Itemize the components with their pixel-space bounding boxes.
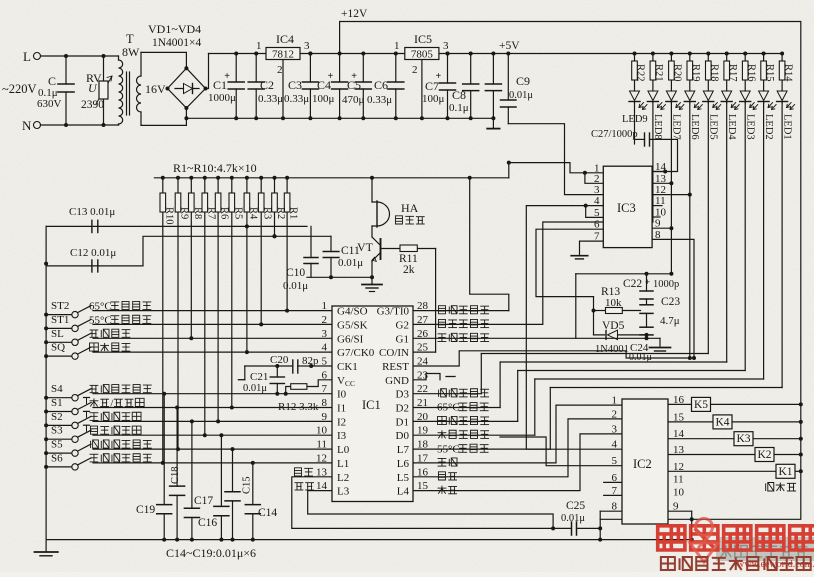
svg-text:3: 3: [304, 40, 310, 52]
svg-text:CO/IN: CO/IN: [379, 347, 409, 359]
svg-text:7805: 7805: [411, 49, 434, 61]
svg-text:4: 4: [594, 195, 600, 207]
svg-text:S4: S4: [51, 383, 63, 395]
svg-text:C19: C19: [136, 504, 155, 516]
svg-text:2390: 2390: [81, 99, 104, 111]
svg-text:2: 2: [612, 408, 618, 420]
svg-text:13: 13: [316, 466, 328, 478]
svg-text:5: 5: [322, 356, 328, 368]
svg-text:65°C: 65°C: [89, 301, 112, 313]
svg-text:55°C: 55°C: [437, 443, 460, 455]
svg-text:G6/SI: G6/SI: [337, 333, 364, 345]
svg-text:HA: HA: [401, 201, 419, 215]
svg-text:R9: R9: [179, 207, 190, 219]
svg-text:LED5: LED5: [708, 114, 719, 140]
svg-text:LED2: LED2: [763, 114, 774, 140]
svg-text:2k: 2k: [403, 264, 415, 276]
svg-text:C17: C17: [194, 495, 213, 507]
svg-text:L6: L6: [397, 458, 410, 470]
svg-text:9: 9: [673, 501, 679, 513]
svg-text:4: 4: [612, 439, 618, 451]
svg-text:10: 10: [316, 425, 328, 437]
svg-text:22: 22: [417, 383, 428, 395]
svg-text:2: 2: [277, 64, 283, 76]
svg-text:C16: C16: [198, 517, 217, 529]
svg-text:S3: S3: [51, 425, 63, 437]
svg-text:I3: I3: [337, 430, 347, 442]
svg-text:4.7μ: 4.7μ: [660, 315, 680, 327]
svg-text:C8: C8: [452, 88, 466, 102]
svg-text:K5: K5: [694, 399, 708, 411]
svg-text:C21: C21: [250, 371, 268, 383]
svg-text:630V: 630V: [37, 98, 62, 110]
svg-text:10: 10: [673, 487, 685, 499]
svg-text:K2: K2: [757, 449, 771, 461]
svg-text:C10: C10: [286, 267, 305, 279]
svg-text:0.33μ: 0.33μ: [258, 93, 283, 105]
svg-text:1: 1: [256, 40, 262, 52]
svg-text:11: 11: [673, 474, 684, 486]
svg-text:C13 0.01μ: C13 0.01μ: [69, 206, 115, 218]
svg-text:SL: SL: [51, 328, 64, 340]
svg-text:C14: C14: [258, 507, 277, 519]
svg-text:15: 15: [417, 480, 429, 492]
svg-text:R2: R2: [275, 207, 286, 219]
svg-text:ST1: ST1: [51, 314, 69, 326]
svg-text:I0: I0: [337, 389, 347, 401]
svg-text:C14~C19:0.01μ×6: C14~C19:0.01μ×6: [166, 546, 256, 560]
svg-text:4: 4: [322, 342, 328, 354]
svg-text:C3: C3: [288, 78, 302, 92]
svg-text:17: 17: [417, 452, 429, 464]
svg-text:R19: R19: [690, 64, 701, 82]
svg-text:27: 27: [417, 314, 429, 326]
svg-text:G3/TI0: G3/TI0: [377, 306, 410, 318]
svg-text:0.1μ: 0.1μ: [449, 102, 469, 114]
svg-text:8: 8: [655, 229, 661, 241]
svg-text:0.01μ: 0.01μ: [338, 257, 363, 269]
svg-text:R21: R21: [653, 64, 664, 82]
svg-text:1N4001×4: 1N4001×4: [152, 37, 202, 49]
svg-text:C9: C9: [516, 74, 530, 88]
svg-text:0.01μ: 0.01μ: [561, 513, 585, 524]
svg-text:100μ: 100μ: [312, 93, 335, 105]
svg-text:S2: S2: [51, 411, 63, 423]
svg-text:8W: 8W: [122, 45, 140, 59]
svg-text:LED9: LED9: [622, 114, 648, 125]
svg-text:C20: C20: [270, 354, 289, 366]
svg-text:3: 3: [612, 423, 618, 435]
svg-text:25: 25: [417, 342, 429, 354]
svg-text:C27/1000p: C27/1000p: [591, 129, 638, 140]
svg-text:C15: C15: [242, 476, 253, 494]
svg-text:1N4001: 1N4001: [595, 344, 629, 355]
svg-text:D3: D3: [396, 389, 410, 401]
svg-text:0.01μ: 0.01μ: [629, 352, 652, 363]
svg-text:+12V: +12V: [341, 8, 368, 20]
svg-text:14: 14: [655, 161, 667, 173]
svg-text:21: 21: [417, 397, 428, 409]
svg-text:V: V: [337, 375, 345, 387]
svg-text:R6: R6: [219, 207, 230, 219]
svg-text:7: 7: [612, 485, 618, 497]
svg-text:R16: R16: [745, 64, 756, 82]
svg-text:G7/CK0: G7/CK0: [337, 347, 375, 359]
svg-text:IC3: IC3: [617, 201, 636, 215]
svg-text:1: 1: [394, 40, 400, 52]
svg-text:10k: 10k: [605, 297, 622, 309]
svg-text:9: 9: [655, 218, 661, 230]
svg-text:7: 7: [594, 231, 600, 243]
svg-text:13: 13: [655, 173, 667, 185]
svg-text:D2: D2: [396, 403, 409, 415]
svg-text:20: 20: [417, 411, 429, 423]
svg-text:LED8: LED8: [652, 114, 663, 140]
svg-text:2: 2: [594, 173, 600, 185]
svg-text:8: 8: [322, 397, 328, 409]
svg-text:IC5: IC5: [414, 32, 432, 46]
svg-text:~220V: ~220V: [2, 82, 37, 96]
svg-text:LED3: LED3: [744, 114, 755, 140]
svg-text:R3: R3: [262, 207, 273, 219]
svg-text:L: L: [23, 49, 31, 64]
svg-text:G2: G2: [396, 319, 409, 331]
svg-text:L2: L2: [337, 472, 349, 484]
svg-text:D1: D1: [396, 416, 409, 428]
svg-text:0.01μ: 0.01μ: [509, 90, 533, 101]
svg-text:6: 6: [612, 472, 618, 484]
svg-text:0.01μ: 0.01μ: [283, 280, 308, 292]
svg-text:14: 14: [673, 428, 685, 440]
svg-text:T: T: [126, 32, 134, 46]
svg-text:L7: L7: [397, 444, 410, 456]
svg-text:26: 26: [417, 328, 429, 340]
svg-text:3: 3: [322, 328, 328, 340]
svg-text:K1: K1: [778, 466, 792, 478]
svg-text:55°C: 55°C: [89, 314, 112, 326]
svg-text:9: 9: [322, 411, 328, 423]
svg-text:GND: GND: [385, 375, 409, 387]
svg-text:VD1~VD4: VD1~VD4: [148, 22, 201, 36]
svg-text:R17: R17: [727, 64, 738, 82]
svg-text:C22: C22: [623, 278, 642, 290]
svg-text:C25: C25: [566, 500, 585, 512]
svg-text:REST: REST: [382, 361, 409, 373]
svg-text:13: 13: [673, 444, 685, 456]
svg-text:IC2: IC2: [633, 457, 652, 471]
svg-text:G4/SO: G4/SO: [337, 306, 368, 318]
svg-text:G1: G1: [396, 333, 409, 345]
svg-text:C2: C2: [260, 78, 274, 92]
svg-text:S6: S6: [51, 452, 63, 464]
svg-text:C23: C23: [661, 296, 680, 308]
svg-text:R20: R20: [672, 64, 683, 82]
svg-text:IC4: IC4: [276, 32, 294, 46]
svg-text:6: 6: [322, 369, 328, 381]
svg-text:C5: C5: [347, 78, 361, 92]
svg-text:5: 5: [594, 207, 600, 219]
svg-text:2: 2: [322, 314, 328, 326]
svg-text:3: 3: [443, 40, 449, 52]
svg-text:C6: C6: [374, 78, 388, 92]
svg-text:100μ: 100μ: [422, 93, 445, 105]
svg-text:G5/SK: G5/SK: [337, 319, 368, 331]
svg-text:S5: S5: [51, 439, 63, 451]
svg-text:N: N: [22, 118, 32, 133]
svg-text:18: 18: [417, 439, 429, 451]
svg-text:82p: 82p: [302, 355, 319, 367]
svg-text:23: 23: [417, 369, 429, 381]
svg-text:0.01μ: 0.01μ: [243, 383, 267, 394]
svg-text:+5V: +5V: [499, 40, 520, 52]
svg-text:U: U: [88, 81, 98, 95]
svg-text:28: 28: [417, 300, 429, 312]
svg-text:16: 16: [673, 394, 685, 406]
svg-text:C4: C4: [317, 78, 331, 92]
svg-text:24: 24: [417, 356, 429, 368]
svg-text:8: 8: [612, 501, 618, 513]
svg-text:1000μ: 1000μ: [208, 92, 236, 104]
svg-text:R1~R10:4.7k×10: R1~R10:4.7k×10: [173, 161, 257, 175]
svg-text:+: +: [645, 277, 650, 287]
svg-text:R7: R7: [205, 207, 216, 219]
svg-text:16V: 16V: [145, 82, 166, 96]
svg-text:CK1: CK1: [337, 361, 358, 373]
svg-text:VD5: VD5: [602, 320, 625, 332]
svg-text:12: 12: [316, 452, 327, 464]
svg-text:L4: L4: [397, 486, 410, 498]
svg-text:C18: C18: [170, 466, 181, 484]
svg-text:R4: R4: [247, 207, 258, 220]
svg-text:16: 16: [417, 466, 429, 478]
svg-text:LED7: LED7: [671, 114, 682, 140]
svg-text:LED6: LED6: [689, 114, 700, 140]
svg-text:0.33μ: 0.33μ: [367, 94, 392, 106]
svg-text:5: 5: [612, 455, 618, 467]
svg-text:L0: L0: [337, 444, 350, 456]
svg-text:SQ: SQ: [51, 342, 65, 354]
svg-text:C12 0.01μ: C12 0.01μ: [70, 247, 116, 259]
svg-text:R12 3.3k: R12 3.3k: [278, 401, 319, 413]
svg-text:D0: D0: [396, 430, 410, 442]
svg-text:I2: I2: [337, 416, 346, 428]
svg-text:K4: K4: [715, 416, 729, 428]
svg-text:6: 6: [594, 219, 600, 231]
svg-text:11: 11: [655, 195, 666, 207]
svg-text:C11: C11: [341, 245, 360, 257]
svg-text:C1: C1: [213, 78, 227, 92]
svg-text:R1: R1: [288, 207, 299, 219]
svg-text:L5: L5: [397, 472, 410, 484]
svg-text:470μ: 470μ: [342, 94, 365, 106]
svg-text:LED1: LED1: [781, 114, 792, 140]
svg-text:14: 14: [316, 480, 328, 492]
svg-text:R15: R15: [764, 64, 775, 82]
svg-text:C: C: [48, 74, 56, 88]
svg-text:15: 15: [673, 411, 685, 423]
svg-text:1: 1: [612, 395, 618, 407]
svg-text:7: 7: [322, 383, 328, 395]
svg-text:R22: R22: [635, 64, 646, 82]
svg-text:R8: R8: [192, 207, 203, 219]
svg-text:2: 2: [412, 64, 418, 76]
svg-text:ST2: ST2: [51, 300, 69, 312]
svg-text:11: 11: [316, 439, 327, 451]
svg-text:19: 19: [417, 425, 429, 437]
svg-text:1000p: 1000p: [653, 279, 679, 290]
svg-text:0.33μ: 0.33μ: [284, 93, 309, 105]
svg-text:CC: CC: [345, 379, 355, 388]
svg-text:IC1: IC1: [362, 398, 381, 412]
svg-text:R18: R18: [709, 64, 720, 82]
svg-text:12: 12: [673, 461, 684, 473]
svg-text:LED4: LED4: [726, 114, 737, 140]
svg-text:R10: R10: [163, 207, 174, 225]
svg-text:R14: R14: [782, 64, 793, 82]
svg-text:R5: R5: [232, 207, 243, 219]
svg-text:C7: C7: [425, 79, 439, 93]
svg-text:K3: K3: [736, 433, 750, 445]
svg-text:I1: I1: [337, 403, 346, 415]
svg-text:L1: L1: [337, 458, 349, 470]
svg-text:L3: L3: [337, 486, 350, 498]
svg-text:10: 10: [655, 207, 667, 219]
svg-text:1: 1: [322, 300, 328, 312]
svg-text:65°C: 65°C: [437, 402, 460, 414]
svg-text:S1: S1: [51, 397, 63, 409]
svg-text:7812: 7812: [272, 49, 294, 61]
